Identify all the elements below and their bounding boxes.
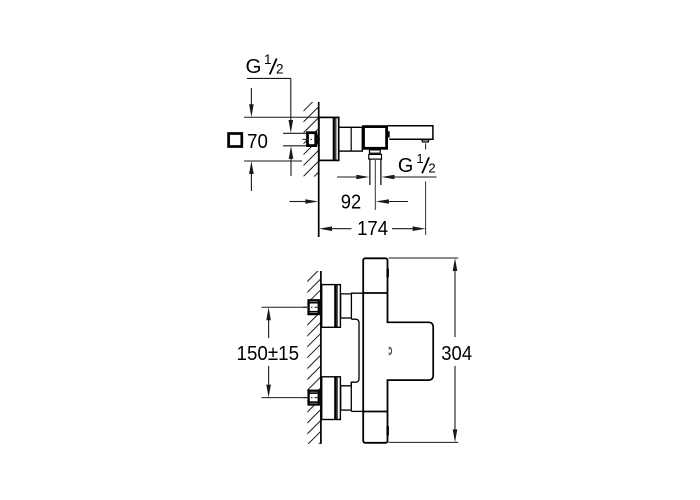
upper connector front view <box>341 293 364 318</box>
supply pipe lines in wall <box>283 132 306 134</box>
outlet centerline extension <box>374 160 376 210</box>
svg-text:174: 174 <box>357 218 388 240</box>
ext line top of escutcheon (70) <box>244 116 319 118</box>
inlet fitting square G1/2 thread <box>308 133 316 146</box>
union line upper <box>363 292 387 294</box>
ext line 304 top <box>389 257 459 259</box>
dim 304 <box>453 258 458 271</box>
mid cover plate between unions <box>341 319 359 386</box>
leader line G1/2 supply <box>247 77 291 79</box>
square symbol for 70 <box>229 134 242 147</box>
wall hatching front view <box>307 271 320 444</box>
dim 150±15 <box>266 307 271 320</box>
grohe logo mark <box>389 347 392 355</box>
dim arrow G1/2 supply lower <box>289 146 294 159</box>
svg-text:150±15: 150±15 <box>237 343 300 365</box>
stop tick upper <box>387 269 389 278</box>
spout outlet nub <box>422 140 429 142</box>
svg-text:2: 2 <box>428 160 435 175</box>
escutcheon side view <box>319 117 339 160</box>
svg-text:G: G <box>246 55 262 78</box>
svg-text:1: 1 <box>416 151 423 166</box>
dim G1/2 outlet arrows <box>337 176 356 178</box>
ext line 174 right below spout outlet <box>425 182 427 236</box>
body-spout joint tab <box>388 131 390 137</box>
svg-text:2: 2 <box>276 62 284 77</box>
lower inlet hex nut <box>309 391 319 405</box>
upper escutcheon front view <box>322 285 341 328</box>
ext line bottom of escutcheon (70) <box>244 160 302 162</box>
thermostat housing <box>386 322 433 380</box>
spout <box>388 126 433 140</box>
outlet pipe <box>369 159 371 185</box>
ext line 150 bottom <box>262 397 307 399</box>
wall hatching side view <box>304 102 319 177</box>
lower escutcheon front view <box>322 377 341 420</box>
shower outlet stub <box>370 150 381 153</box>
upper inlet hex nut <box>309 300 319 314</box>
body bar <box>363 258 387 443</box>
svg-text:G: G <box>398 155 413 177</box>
wall line side view <box>318 102 320 237</box>
supply centerline <box>303 138 321 140</box>
connector neck side view <box>339 127 363 151</box>
dim arrows 70 <box>250 88 252 105</box>
fitting chamfer wedge <box>317 133 319 145</box>
wall line front view <box>320 271 322 444</box>
lower connector front view <box>340 386 342 410</box>
svg-text:92: 92 <box>341 191 361 213</box>
ext line 150 top <box>262 306 307 308</box>
dim 92 <box>290 201 306 203</box>
union line lower <box>363 411 387 413</box>
stop tick lower <box>387 426 389 436</box>
ext line 304 bottom <box>389 441 459 443</box>
svg-text:1: 1 <box>264 52 272 67</box>
dim 174 <box>319 226 332 231</box>
outlet collar <box>369 154 382 159</box>
svg-text:304: 304 <box>441 343 472 365</box>
valve body side view <box>364 127 387 149</box>
nub leader <box>425 144 427 150</box>
svg-text:70: 70 <box>247 130 268 153</box>
